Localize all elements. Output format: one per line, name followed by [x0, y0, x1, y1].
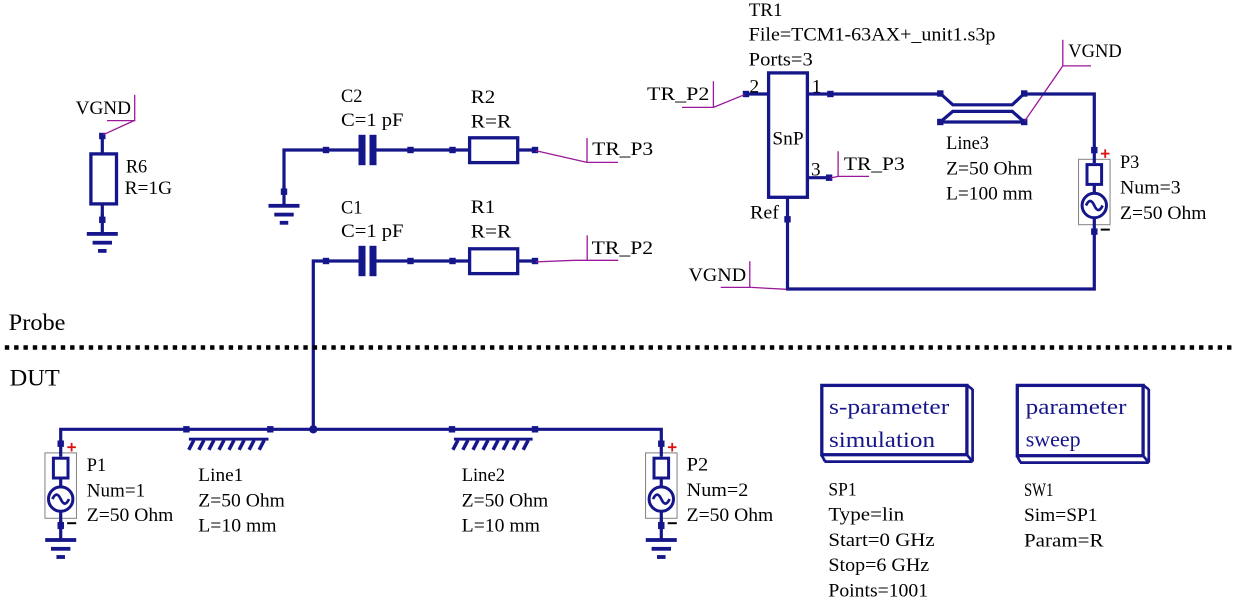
junction [309, 425, 317, 433]
svg-text:Stop=6 GHz: Stop=6 GHz [828, 555, 929, 576]
svg-text:SnP: SnP [772, 129, 803, 150]
svg-text:Z=50 Ohm: Z=50 Ohm [87, 505, 174, 526]
node [449, 147, 455, 153]
power source P2 [646, 441, 678, 529]
svg-text:Z=50 Ohm: Z=50 Ohm [946, 159, 1033, 180]
svg-text:s-parameter: s-parameter [829, 394, 950, 419]
ground [269, 186, 300, 225]
svg-text:TR_P3: TR_P3 [844, 154, 905, 175]
resistor R2 [470, 138, 518, 163]
node [407, 147, 413, 153]
svg-text:Num=2: Num=2 [687, 480, 749, 501]
svg-text:TR_P3: TR_P3 [592, 139, 653, 160]
svg-text:R6: R6 [126, 157, 148, 178]
svg-text:Line2: Line2 [462, 465, 505, 486]
label TR_P3 (pin 3) [830, 151, 869, 178]
label VGND (Line3) [1025, 40, 1091, 121]
ground [646, 520, 677, 559]
wire [284, 150, 359, 193]
resistor R1 [470, 249, 518, 274]
pin 2 [746, 92, 768, 95]
wire [61, 429, 662, 444]
svg-text:Type=lin: Type=lin [828, 505, 904, 526]
power source P1 [45, 441, 76, 529]
svg-text:Probe: Probe [9, 310, 66, 335]
svg-text:Z=50 Ohm: Z=50 Ohm [198, 490, 285, 511]
wire [518, 259, 535, 262]
node TR_P2 [532, 258, 538, 264]
svg-text:sweep: sweep [1026, 427, 1081, 452]
svg-text:File=TCM1-63AX+_unit1.s3p: File=TCM1-63AX+_unit1.s3p [749, 24, 996, 45]
transmission line Line2 [449, 426, 538, 450]
label VGND (bottom) [721, 261, 787, 289]
label TR_P2 [536, 235, 618, 262]
wire [313, 261, 358, 429]
svg-text:Points=1001: Points=1001 [828, 580, 928, 600]
wire [518, 148, 535, 151]
svg-text:R=R: R=R [471, 112, 512, 133]
wire [830, 92, 941, 95]
parameter sweep box SW1 [1017, 385, 1149, 463]
ground [87, 214, 118, 253]
dotted divider [5, 345, 1233, 349]
svg-text:SP1: SP1 [828, 480, 856, 501]
svg-text:P2: P2 [687, 455, 709, 476]
power source P3 [1079, 147, 1111, 235]
component TR1 SnP [769, 73, 808, 197]
svg-text:TR_P2: TR_P2 [592, 238, 653, 259]
wire [377, 259, 470, 262]
pin 3 [808, 176, 829, 179]
node VGND (R6 top) [99, 133, 105, 139]
svg-text:Line1: Line1 [198, 465, 243, 486]
svg-text:VGND: VGND [689, 265, 747, 286]
wire [1023, 94, 1094, 151]
capacitor C2 [359, 135, 377, 165]
svg-text:Line3: Line3 [946, 133, 989, 154]
svg-text:R2: R2 [471, 87, 496, 108]
wire [786, 232, 1094, 289]
svg-text:1: 1 [812, 76, 822, 97]
svg-text:Sim=SP1: Sim=SP1 [1024, 505, 1098, 526]
label TR_P3 [536, 138, 618, 162]
transmission line Line1 [183, 426, 273, 450]
node [323, 147, 329, 153]
resistor R6 [91, 154, 117, 204]
svg-text:Start=0 GHz: Start=0 GHz [828, 530, 934, 551]
svg-text:3: 3 [811, 160, 821, 181]
svg-text:SW1: SW1 [1024, 480, 1053, 501]
pin Ref [786, 197, 789, 289]
svg-text:C2: C2 [341, 86, 362, 107]
svg-text:DUT: DUT [10, 365, 60, 390]
svg-text:R=R: R=R [471, 222, 512, 243]
node [407, 258, 413, 264]
svg-text:P1: P1 [87, 455, 106, 476]
svg-text:Ports=3: Ports=3 [749, 49, 813, 70]
svg-text:TR_P2: TR_P2 [647, 84, 709, 105]
svg-text:Z=50 Ohm: Z=50 Ohm [1120, 203, 1207, 224]
wire [377, 148, 470, 151]
svg-text:C=1 pF: C=1 pF [341, 221, 404, 242]
label VGND [103, 95, 135, 135]
svg-text:VGND: VGND [1068, 41, 1122, 62]
svg-text:parameter: parameter [1026, 394, 1127, 419]
svg-text:2: 2 [750, 77, 760, 98]
svg-text:TR1: TR1 [749, 0, 783, 21]
svg-text:C1: C1 [341, 197, 362, 218]
svg-text:VGND: VGND [76, 98, 132, 119]
wire [101, 136, 104, 154]
ground [45, 520, 76, 559]
transmission line Line3 [937, 90, 1027, 125]
node [323, 258, 329, 264]
svg-text:Num=1: Num=1 [87, 480, 145, 501]
s-parameter simulation box SP1 [821, 385, 972, 462]
svg-text:Num=3: Num=3 [1120, 178, 1181, 199]
svg-text:Z=50 Ohm: Z=50 Ohm [462, 490, 549, 511]
capacitor C1 [359, 246, 377, 276]
svg-text:Z=50 Ohm: Z=50 Ohm [687, 505, 774, 526]
svg-text:L=10 mm: L=10 mm [462, 516, 540, 537]
wire [101, 204, 104, 220]
pin 1 [808, 92, 830, 95]
svg-text:R1: R1 [471, 197, 496, 218]
svg-text:L=10 mm: L=10 mm [198, 516, 276, 537]
svg-text:Ref: Ref [750, 203, 780, 224]
svg-text:simulation: simulation [829, 427, 935, 452]
svg-text:C=1 pF: C=1 pF [341, 110, 404, 131]
svg-text:R=1G: R=1G [125, 178, 173, 199]
svg-text:P3: P3 [1120, 152, 1139, 173]
svg-text:Param=R: Param=R [1024, 530, 1104, 551]
node TR_P3 [532, 147, 538, 153]
node [449, 258, 455, 264]
svg-text:L=100 mm: L=100 mm [946, 183, 1033, 204]
label TR_P2 (pin 2) [682, 81, 745, 107]
